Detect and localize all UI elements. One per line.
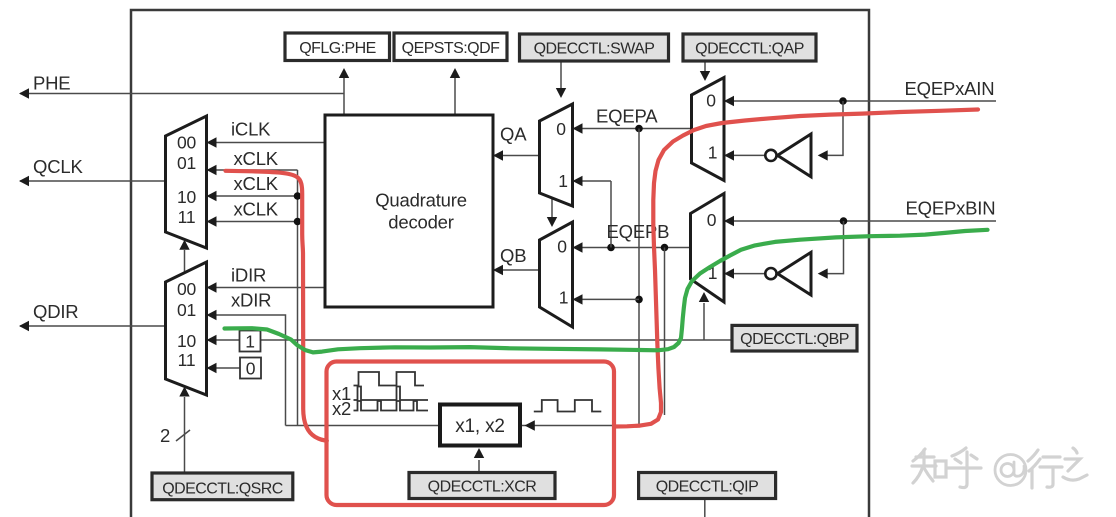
node junction xCLK 11 — [294, 218, 302, 226]
wire XCR select — [478, 460, 480, 473]
wire EQEPA vertical to x1x2 — [638, 129, 640, 426]
register box QEPSTS:QDF — [394, 33, 507, 61]
inverter A — [778, 134, 812, 177]
node junction xCLK 10 — [294, 192, 302, 200]
svg-text:QDECCTL:SWAP: QDECCTL:SWAP — [534, 41, 655, 58]
svg-text:QDIR: QDIR — [33, 301, 78, 322]
register box QDECCTL:QSRC — [152, 473, 293, 500]
wire QBP select — [703, 303, 705, 340]
wire QFLG vertical — [343, 77, 345, 115]
wire EQEPB — [573, 247, 691, 249]
wire AIN to inverterA — [826, 101, 843, 155]
svg-text:00: 00 — [177, 133, 197, 153]
node bus-width slash — [176, 430, 190, 441]
node junction EQEPA — [635, 125, 643, 133]
svg-text:01: 01 — [177, 300, 196, 320]
wire iCLK — [207, 142, 326, 144]
wire inverterA out — [724, 154, 765, 156]
wire EQEPB up to muxA input1 — [610, 181, 612, 248]
waveform x1 — [354, 387, 429, 401]
svg-text:0: 0 — [246, 359, 256, 379]
node junction BIN — [840, 217, 848, 225]
node junction EQEPA-muxB — [635, 296, 643, 304]
svg-text:10: 10 — [177, 331, 197, 351]
wire mux2 select from QSRC — [184, 397, 186, 473]
wire QDIR output — [20, 325, 166, 327]
wire constant-1 row and QBP long line — [207, 339, 733, 341]
waveform xCLK output — [534, 400, 602, 412]
wire iDIR — [207, 287, 326, 289]
multiplexer mux2 QDIR — [166, 262, 207, 395]
svg-text:11: 11 — [178, 207, 196, 227]
wire xCLK row 10 — [207, 195, 298, 197]
annotation green path — [225, 230, 988, 353]
svg-text:00: 00 — [177, 279, 197, 299]
wire BIN to inverterB — [826, 221, 844, 274]
svg-text:QDECCTL:QAP: QDECCTL:QAP — [695, 41, 804, 58]
annotation red highlight rectangle — [327, 362, 615, 506]
register box QDECCTL:SWAP — [520, 34, 669, 61]
register box QDECCTL:XCR — [409, 473, 555, 499]
svg-text:decoder: decoder — [388, 212, 453, 233]
svg-text:1: 1 — [558, 171, 568, 191]
waveform QA reference — [354, 372, 425, 386]
wire constant-0 row — [207, 367, 241, 369]
node QAP arrowhead down — [700, 71, 710, 81]
svg-text:x1, x2: x1, x2 — [455, 416, 505, 437]
wire xCLK vertical bus — [297, 170, 299, 426]
multiplexer muxA swap A — [540, 104, 573, 206]
svg-text:EQEPxBIN: EQEPxBIN — [906, 198, 996, 219]
wire SWAP select vertical — [560, 61, 562, 89]
svg-text:xDIR: xDIR — [231, 290, 271, 311]
register box QFLG:PHE — [285, 33, 390, 61]
svg-text:QA: QA — [500, 124, 527, 145]
wire EQEPB vertical down — [664, 248, 666, 416]
wire muxB input1 — [573, 298, 640, 300]
waveform x2 — [354, 401, 429, 411]
multiplexer mux1 QCLK — [166, 116, 207, 248]
wire xCLK row 11 — [207, 221, 298, 223]
wire EQEPxBIN — [724, 220, 996, 222]
constant 1 box — [240, 331, 261, 352]
svg-text:QDECCTL:QIP: QDECCTL:QIP — [656, 479, 758, 496]
svg-text:EQEPA: EQEPA — [596, 106, 658, 127]
svg-text:QDECCTL:XCR: QDECCTL:XCR — [428, 479, 537, 496]
multiplexer muxD QBP polarity — [691, 194, 725, 303]
wire PHE horizontal — [20, 93, 344, 95]
svg-text:EQEPxAIN: EQEPxAIN — [905, 78, 995, 99]
wire QB — [493, 269, 540, 271]
annotation red left path — [226, 171, 327, 441]
svg-text:2: 2 — [160, 425, 170, 446]
wire muxA to muxB cascade — [551, 199, 553, 218]
wire QIP below — [704, 499, 706, 517]
svg-text:iDIR: iDIR — [231, 265, 266, 286]
annotation red right path — [614, 110, 978, 427]
watermark zhihu — [912, 448, 1087, 488]
wire QAP select vertical — [704, 61, 706, 72]
svg-text:0: 0 — [706, 91, 716, 111]
constant 0 box — [240, 358, 261, 379]
quadrature decoder box U1 — [325, 115, 493, 307]
wire x1x2 feed horizontal — [286, 425, 640, 427]
node PHE arrowhead left — [19, 88, 29, 98]
wire xDIR — [207, 315, 286, 426]
svg-text:PHE: PHE — [33, 73, 70, 94]
svg-text:x2: x2 — [332, 398, 351, 419]
svg-text:01: 01 — [177, 153, 196, 173]
svg-text:0: 0 — [557, 237, 567, 257]
multiplexer muxB swap B — [540, 222, 573, 327]
register box QDECCTL:QAP — [683, 34, 816, 61]
wire QA — [493, 155, 540, 157]
svg-text:QB: QB — [500, 245, 526, 266]
wire EQEPA — [573, 128, 692, 130]
x1x2 block — [440, 405, 520, 446]
svg-text:QCLK: QCLK — [33, 156, 83, 177]
svg-text:iCLK: iCLK — [231, 119, 271, 140]
svg-text:0: 0 — [556, 119, 566, 139]
wire mux1 select — [184, 250, 186, 274]
svg-text:QDECCTL:QSRC: QDECCTL:QSRC — [162, 481, 283, 498]
wire muxA input1 — [573, 180, 612, 182]
svg-text:QDECCTL:QBP: QDECCTL:QBP — [740, 331, 849, 348]
svg-text:0: 0 — [707, 210, 717, 230]
svg-text:1: 1 — [708, 143, 718, 163]
register box QDECCTL:QIP — [639, 473, 776, 499]
wire QCLK output — [20, 180, 166, 182]
svg-text:1: 1 — [245, 332, 255, 352]
wire EQEPxAIN — [724, 100, 996, 102]
node SWAP arrowhead down — [556, 88, 566, 98]
node QDF arrowhead up — [450, 68, 460, 78]
register box QDECCTL:QBP — [732, 325, 857, 351]
wire inverterB out — [724, 273, 765, 275]
svg-text:11: 11 — [178, 350, 196, 370]
svg-text:EQEPB: EQEPB — [607, 221, 670, 242]
wire QDF vertical — [454, 77, 456, 115]
svg-text:QEPSTS:QDF: QEPSTS:QDF — [402, 40, 500, 57]
node junction EQEPB-muxA — [607, 244, 615, 252]
inverter B — [778, 252, 812, 295]
wire xCLK row 01 — [207, 169, 298, 171]
node x1x2 input arrowhead — [525, 420, 535, 431]
svg-text:Quadrature: Quadrature — [375, 190, 467, 211]
svg-text:QFLG:PHE: QFLG:PHE — [299, 40, 376, 57]
svg-text:xCLK: xCLK — [234, 148, 279, 169]
multiplexer muxC QAP polarity — [692, 78, 725, 181]
svg-text:1: 1 — [559, 288, 569, 308]
outer module box — [131, 10, 869, 517]
node junction AIN — [839, 97, 847, 105]
node QFLG arrowhead up — [339, 68, 349, 78]
svg-text:xCLK: xCLK — [234, 173, 279, 194]
svg-text:xCLK: xCLK — [234, 199, 279, 220]
node junction EQEPB-down — [661, 244, 669, 252]
svg-text:10: 10 — [177, 187, 197, 207]
